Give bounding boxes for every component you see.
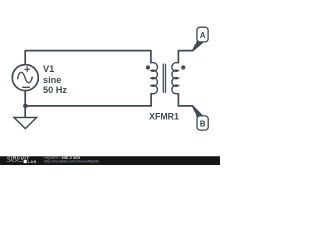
terminal A box bbox=[197, 27, 208, 42]
transformer XFMR1 primary winding bbox=[151, 63, 158, 94]
node junction at source bottom bbox=[23, 104, 28, 109]
voltage source V1 circle bbox=[12, 65, 38, 91]
svg-text:B: B bbox=[200, 119, 206, 128]
svg-text:CIRCUIT: CIRCUIT bbox=[7, 156, 29, 161]
watermark logo waveform bbox=[7, 160, 23, 162]
svg-text:sine: sine bbox=[43, 75, 61, 85]
plus sign of V1 bbox=[24, 66, 30, 72]
ground symbol bbox=[14, 118, 37, 129]
svg-text:LAB: LAB bbox=[28, 159, 37, 164]
svg-text:http://circuitlab.com/c/beaxdf: http://circuitlab.com/c/beaxdf5p36r bbox=[44, 160, 100, 164]
transformer XFMR1 secondary winding bbox=[172, 63, 179, 94]
transformer core bbox=[163, 64, 165, 93]
terminal B tail bbox=[193, 105, 203, 117]
wire secondary top to terminal A bbox=[178, 45, 195, 64]
wire secondary bottom to terminal B bbox=[178, 93, 195, 112]
svg-text:A: A bbox=[200, 31, 206, 40]
watermark logo LAB block bbox=[24, 160, 27, 163]
polarity dot primary bbox=[146, 65, 150, 69]
minus sign of V1 bbox=[22, 86, 30, 88]
svg-text:V1: V1 bbox=[43, 64, 54, 74]
wire top rail from source to transformer primary bbox=[25, 51, 151, 65]
svg-text:50 Hz: 50 Hz bbox=[43, 85, 67, 95]
terminal B box bbox=[197, 116, 208, 130]
terminal A tail bbox=[193, 41, 203, 52]
polarity dot secondary bbox=[181, 65, 185, 69]
sine waveform inside V1 bbox=[18, 72, 33, 82]
svg-text:XFMR1: XFMR1 bbox=[149, 111, 179, 121]
wire source bottom to ground bbox=[24, 91, 26, 117]
wire bottom rail to transformer primary bbox=[25, 93, 151, 106]
watermark bar bbox=[0, 156, 220, 165]
